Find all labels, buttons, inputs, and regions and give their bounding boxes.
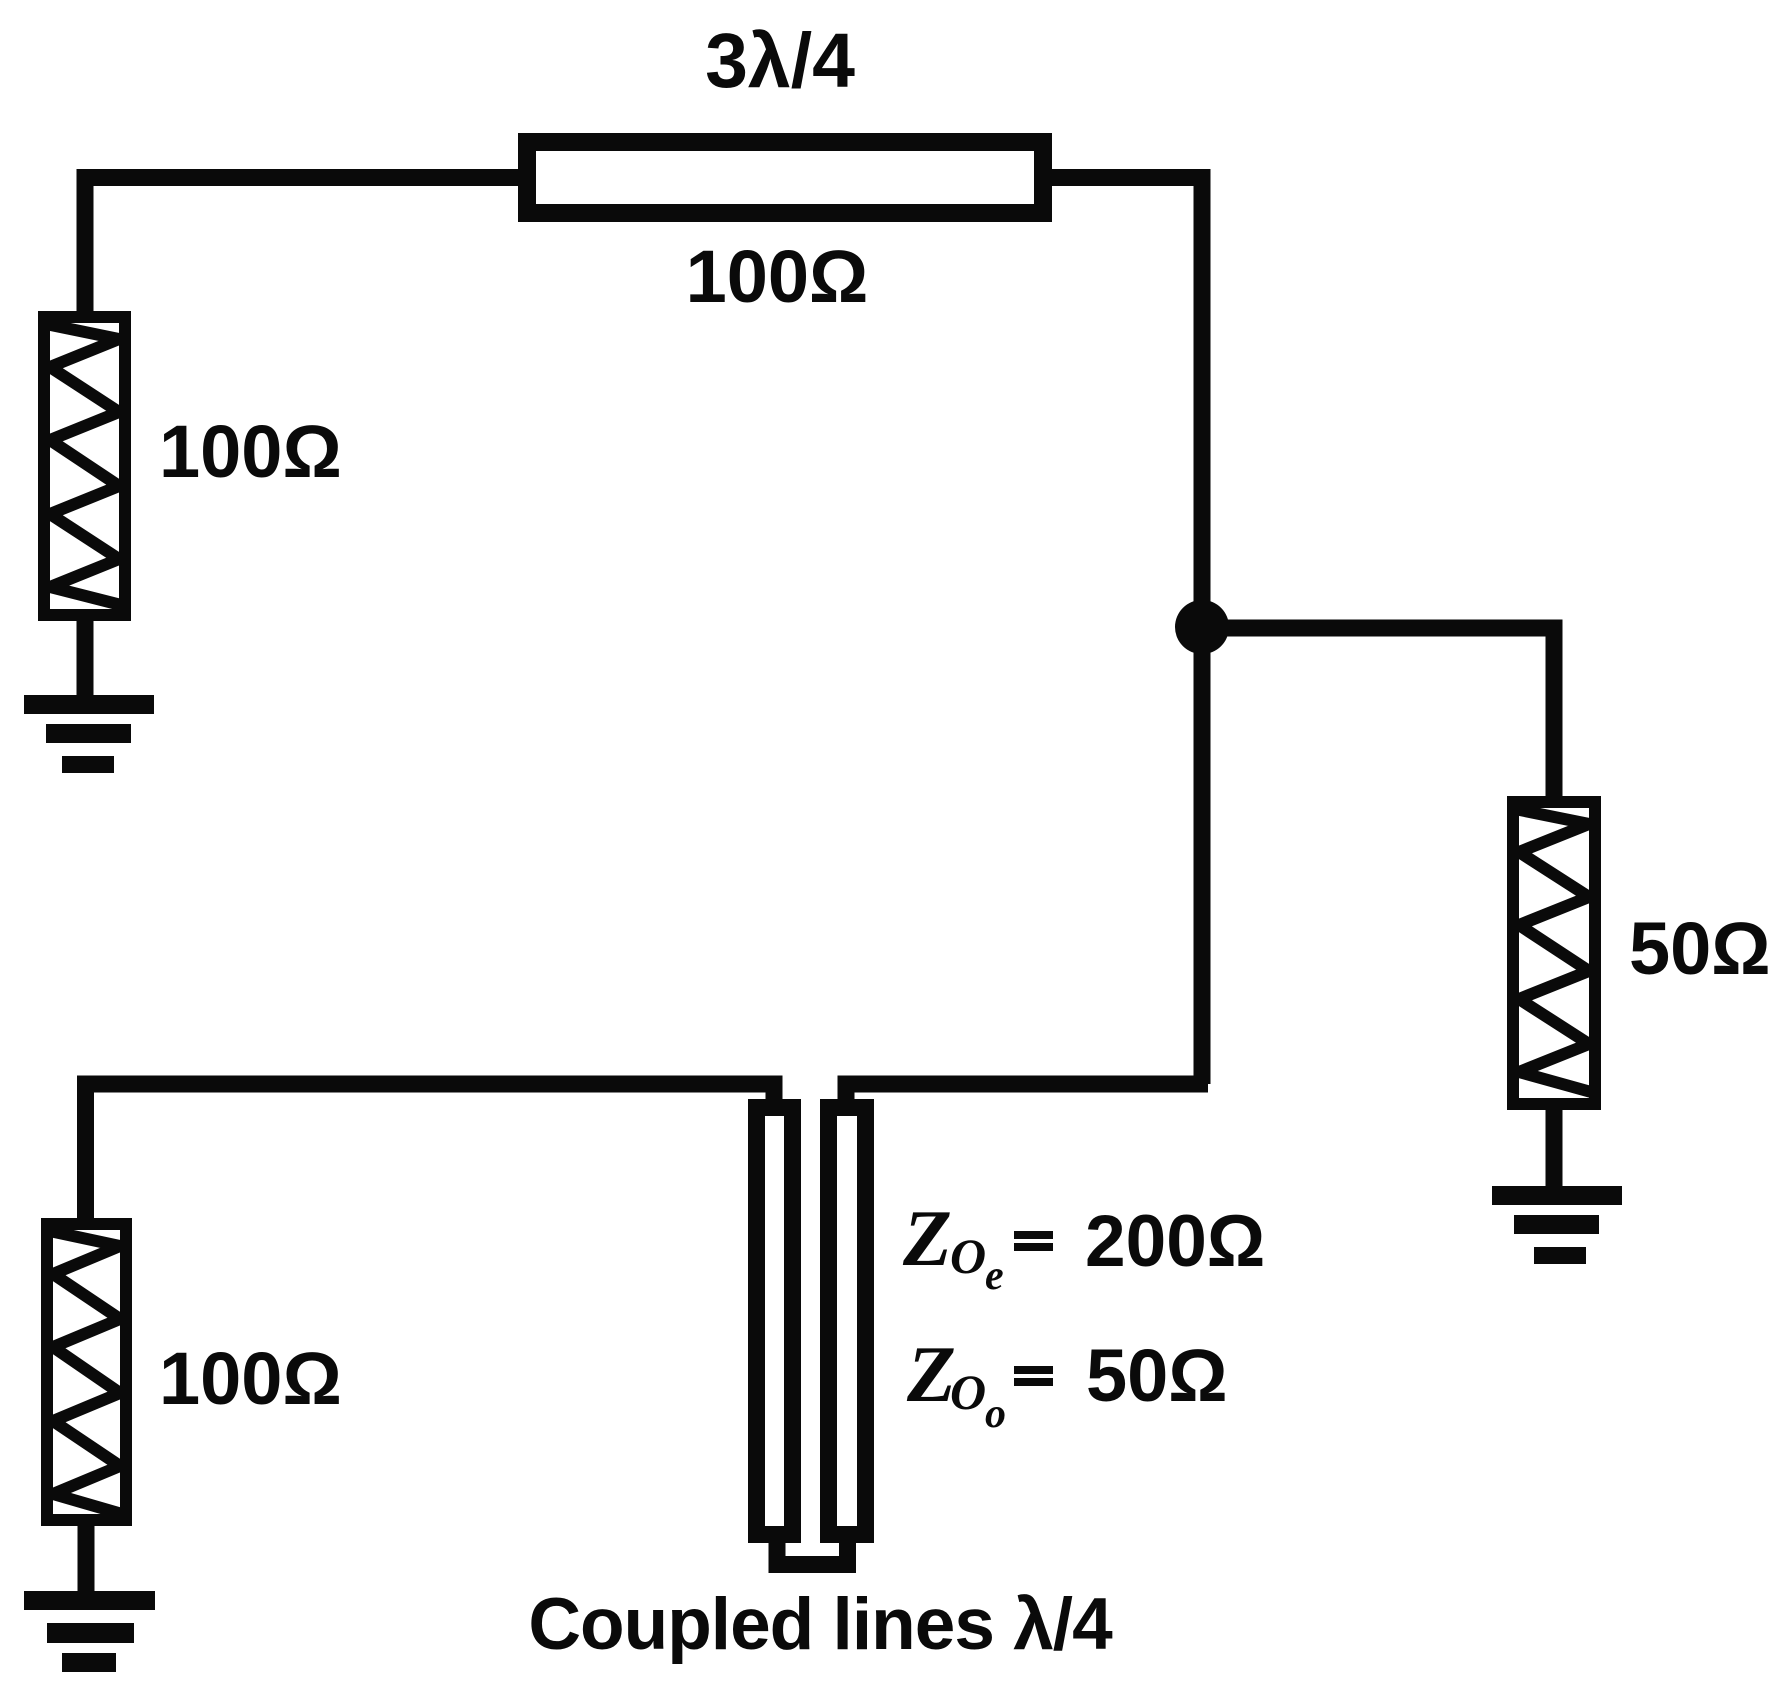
svg-text:e: e [985, 1253, 1004, 1299]
svg-text:100Ω: 100Ω [686, 235, 869, 318]
coupled line CL1 (left) [757, 1108, 793, 1535]
svg-text:O: O [950, 1228, 986, 1284]
svg-text:Z: Z [902, 1195, 952, 1283]
wire TL1 right to node A and down [1052, 178, 1202, 1085]
svg-text:O: O [950, 1364, 986, 1420]
svg-text:200Ω: 200Ω [1085, 1201, 1265, 1282]
svg-text:Z: Z [906, 1331, 956, 1419]
svg-text:3λ/4: 3λ/4 [705, 18, 855, 104]
wire R3 to ground G3 [78, 1520, 95, 1596]
wire node A to R2 [1202, 628, 1554, 800]
svg-text:100Ω: 100Ω [159, 1337, 342, 1420]
resistor R2 50Ω [1510, 802, 1595, 1104]
svg-text:100Ω: 100Ω [159, 410, 342, 493]
svg-text:Coupled lines λ/4: Coupled lines λ/4 [528, 1584, 1113, 1665]
svg-text:o: o [985, 1391, 1006, 1437]
wire TL1 left to R1 [85, 178, 518, 316]
wire R2 to ground G2 [1546, 1104, 1563, 1190]
coupled line CL2 (right) [829, 1108, 866, 1535]
resistor R3 100Ω [45, 1224, 126, 1520]
label ZOo = 50Ω [906, 1331, 1228, 1437]
ground G2 [1492, 1186, 1622, 1264]
wire bottom-left: CL1 top to R3 [86, 1084, 775, 1222]
svg-text:50Ω: 50Ω [1629, 907, 1768, 990]
node A junction dot [1175, 600, 1229, 654]
transmission line TL1 [527, 142, 1043, 213]
label ZOe = 200Ω [902, 1195, 1265, 1299]
svg-text:50Ω: 50Ω [1086, 1334, 1228, 1417]
wire CL1 bottom to CL2 bottom (U link) [777, 1541, 848, 1565]
resistor R1 100Ω [41, 317, 125, 615]
wire CL2 top to node vertical [846, 1084, 1208, 1102]
ground G3 [24, 1591, 155, 1672]
wire R1 to ground G1 [77, 615, 94, 700]
ground G1 [24, 695, 154, 773]
